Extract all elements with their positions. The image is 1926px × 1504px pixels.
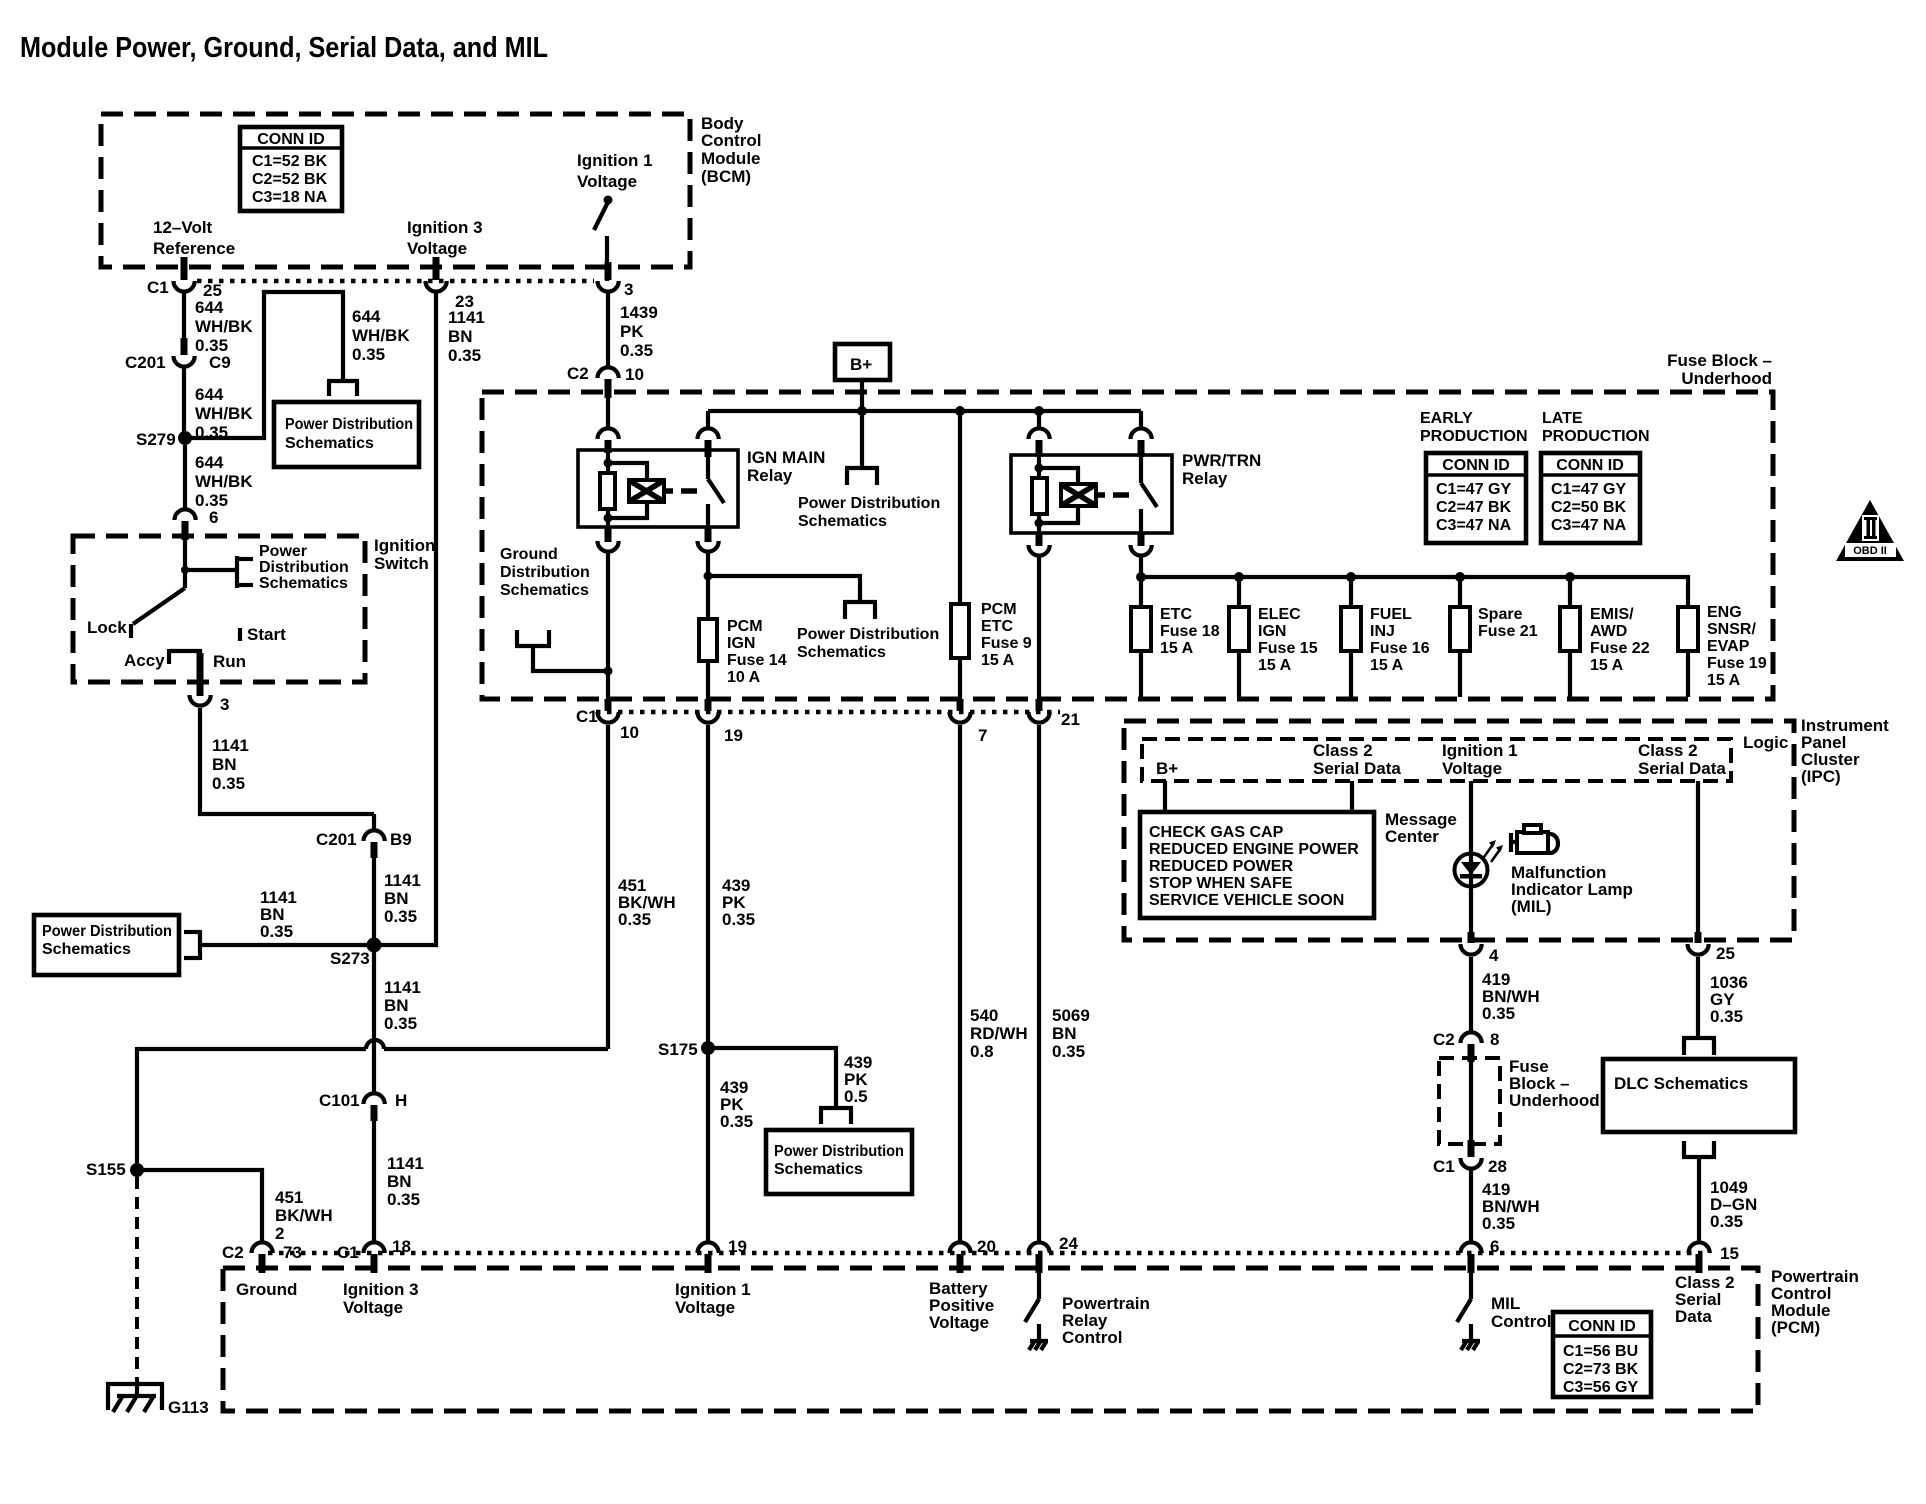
connector pin 7 (fuse block exit) [950,699,988,745]
box Power Distribution Schematics (center) [766,1130,912,1194]
svg-text:C9: C9 [209,353,231,372]
wire IGN MAIN switch to fuse 14 [704,553,713,619]
svg-text:C201: C201 [125,353,166,372]
wire 439 PK S175 to PCM pin 19 [708,1048,753,1241]
svg-text:Relay: Relay [1182,469,1228,488]
off-page fork to Power Distribution (ignition switch) [237,543,349,592]
svg-text:0.35: 0.35 [448,346,481,365]
svg-text:Voltage: Voltage [675,1298,735,1317]
svg-text:Power Distribution: Power Distribution [798,495,940,512]
svg-text:BN: BN [387,1172,412,1191]
junction box fuse block underhood (inline) [1439,1057,1600,1144]
wire 1141 BN S273 down [374,945,421,1092]
svg-text:Power Distribution: Power Distribution [774,1143,904,1160]
svg-text:Underhood: Underhood [1509,1091,1600,1110]
svg-text:INJ: INJ [1370,623,1395,640]
svg-text:S175: S175 [658,1040,698,1059]
svg-text:AWD: AWD [1590,623,1627,640]
svg-text:C2=52 BK: C2=52 BK [252,171,328,188]
connector C2 pin 8 [1433,1030,1499,1062]
wire 1141 BN from ignition switch [200,708,374,814]
svg-text:0.35: 0.35 [1710,1212,1743,1231]
svg-text:DLC Schematics: DLC Schematics [1614,1074,1748,1093]
connector pin 3 (BCM) [598,262,634,299]
splice S155 [86,1160,144,1179]
conn id table BCM [240,127,342,211]
svg-text:PCM: PCM [981,601,1017,618]
connector pin 19 (fuse block exit) [698,699,743,745]
svg-text:Schematics: Schematics [774,1161,863,1178]
lamp rays [1484,840,1503,862]
svg-text:IGN: IGN [1258,623,1286,640]
fuse PCM ETC Fuse 9 [951,411,1032,699]
label 12-Volt Reference [153,218,235,258]
svg-text:25: 25 [1716,944,1735,963]
wire 1141 BN from BCM pin 23 [374,293,485,945]
svg-text:Schematics: Schematics [798,513,887,530]
svg-text:C2=47 BK: C2=47 BK [1436,499,1512,516]
svg-text:ETC: ETC [1160,606,1192,623]
svg-text:0.35: 0.35 [1052,1042,1085,1061]
svg-text:15 A: 15 A [1258,657,1292,674]
svg-text:C1=47 GY: C1=47 GY [1551,481,1626,498]
splice S175 [658,1040,715,1059]
svg-text:CHECK GAS CAP: CHECK GAS CAP [1149,824,1284,841]
connector C1 pin 25 (BCM) [147,257,222,300]
svg-text:PRODUCTION: PRODUCTION [1420,428,1528,445]
svg-text:B9: B9 [390,830,412,849]
wire dashed S155 to ground [135,1177,139,1392]
svg-text:Fuse 22: Fuse 22 [1590,640,1650,657]
svg-text:Ignition: Ignition [374,536,435,555]
off-page fork from DLC [1682,1141,1716,1241]
svg-text:Power Distribution: Power Distribution [42,923,172,940]
module box Powertrain Control Module [223,1267,1859,1411]
svg-text:(PCM): (PCM) [1771,1318,1820,1337]
relay IGN MAIN [578,398,825,527]
svg-text:Fuse 15: Fuse 15 [1258,640,1318,657]
relay IGN MAIN coil [600,453,673,527]
message center box [1140,812,1374,918]
icon check engine [1511,825,1558,853]
svg-text:G113: G113 [168,1398,209,1417]
svg-text:CONN ID: CONN ID [1556,457,1624,474]
svg-text:Underhood: Underhood [1681,369,1772,388]
svg-text:Control: Control [701,131,761,150]
splice S279 [136,430,192,449]
svg-text:CONN ID: CONN ID [1568,1318,1636,1335]
label Malfunction Indicator Lamp [1511,863,1633,916]
svg-text:C2: C2 [1433,1030,1455,1049]
svg-text:10 A: 10 A [727,669,761,686]
wire 540 RD/WH from pin 7 to PCM pin 20 [960,725,1028,1241]
svg-text:B+: B+ [850,355,872,374]
connector pin 6 (PCM) [1461,1237,1500,1273]
relay IGN MAIN bottom connectors [598,527,719,552]
wire B+ to message center [1163,781,1167,812]
svg-text:PRODUCTION: PRODUCTION [1542,428,1650,445]
connector pin 25 (IPC exit) [1688,932,1735,963]
svg-text:C1=47 GY: C1=47 GY [1436,481,1511,498]
wire 451 BK/WH from C1 10 [608,725,676,1049]
svg-text:Fuse 9: Fuse 9 [981,635,1032,652]
svg-text:MIL: MIL [1491,1294,1520,1313]
svg-text:Voltage: Voltage [1442,759,1502,778]
fuse Spare Fuse 21 [1450,577,1538,697]
svg-text:Fuse 19: Fuse 19 [1707,655,1767,672]
splice S273 [330,938,382,969]
svg-text:3: 3 [220,695,229,714]
lamp MIL indicator [1455,854,1488,887]
connector C1 pin 28 [1433,1140,1507,1176]
svg-text:1141: 1141 [387,1154,424,1173]
svg-text:6: 6 [1490,1237,1499,1256]
svg-text:0.8: 0.8 [970,1042,994,1061]
svg-text:18: 18 [392,1237,411,1256]
wire IGN MAIN coil to C1 10 [606,553,610,699]
svg-text:4: 4 [1489,946,1499,965]
svg-text:Reference: Reference [153,239,235,258]
svg-text:15 A: 15 A [1370,657,1404,674]
relay PWR/TRN bottom connectors [1029,533,1152,556]
svg-text:Voltage: Voltage [343,1298,403,1317]
svg-text:ENG: ENG [1707,604,1742,621]
svg-text:S273: S273 [330,949,370,968]
off-page fork ground distribution [515,630,613,676]
connector pin 3 (ignition switch output) [190,695,230,714]
svg-text:Lock: Lock [87,618,127,637]
wire 439 PK from pin 19 to S175 [708,725,755,1048]
svg-text:644: 644 [352,307,381,326]
svg-text:PCM: PCM [727,618,763,635]
svg-text:REDUCED ENGINE POWER: REDUCED ENGINE POWER [1149,841,1359,858]
connector pin 23 (BCM) [426,257,474,311]
svg-text:Spare: Spare [1478,606,1523,623]
svg-text:IGN: IGN [727,635,755,652]
svg-text:Ignition 1: Ignition 1 [675,1280,751,1299]
svg-text:540: 540 [970,1006,998,1025]
module box Fuse Block Underhood [482,351,1773,699]
svg-text:15 A: 15 A [1590,657,1624,674]
wire Ignition 1 Voltage through MIL lamp [1469,781,1473,932]
svg-text:EVAP: EVAP [1707,638,1750,655]
label Ignition 1 Voltage (BCM) [577,151,653,191]
svg-text:Serial Data: Serial Data [1313,759,1401,778]
svg-text:Fuse 18: Fuse 18 [1160,623,1220,640]
svg-text:451: 451 [275,1188,303,1207]
conn id table early production [1426,453,1526,543]
svg-text:0.35: 0.35 [620,341,653,360]
wire 5069 BN from pin 21 to PCM pin 24 [1039,725,1090,1241]
svg-text:0.35: 0.35 [722,910,755,929]
svg-text:BN: BN [384,889,409,908]
svg-text:Relay: Relay [747,466,793,485]
wire Class 2 to message center [1350,781,1354,812]
driver MIL control [1457,1273,1551,1350]
wire Class 2 right stem [1696,781,1700,932]
svg-text:0.5: 0.5 [844,1087,868,1106]
svg-text:Power: Power [259,543,307,560]
svg-text:0.35: 0.35 [720,1112,753,1131]
svg-text:2: 2 [275,1224,284,1243]
svg-text:7: 7 [978,726,987,745]
svg-text:C3=47 NA: C3=47 NA [1551,517,1627,534]
fuse rail [1136,572,1688,607]
svg-text:IGN MAIN: IGN MAIN [747,448,825,467]
svg-text:Data: Data [1675,1307,1712,1326]
svg-text:0.35: 0.35 [387,1190,420,1209]
label Class 2 Serial Data (left) [1313,741,1401,778]
svg-text:EMIS/: EMIS/ [1590,606,1634,623]
svg-text:BN: BN [212,755,237,774]
connector pin 20 (PCM) [929,1237,996,1332]
svg-text:Control: Control [1062,1328,1122,1347]
relay PWR/TRN [1011,411,1261,533]
wire 451 BK/WH horizontal with hop over 1141 BN [137,1040,608,1163]
svg-text:0.35: 0.35 [260,922,293,941]
wire 439 PK branch to Power Distribution [708,1048,872,1107]
label LATE PRODUCTION [1542,410,1650,445]
label Ground Distribution Schematics [500,546,590,599]
svg-text:PK: PK [620,322,644,341]
wire 644 WH/BK S279 to ignition switch [185,445,253,510]
svg-text:C3=56 GY: C3=56 GY [1563,1379,1638,1396]
svg-text:644: 644 [195,298,224,317]
svg-text:0.35: 0.35 [384,1014,417,1033]
off-page fork to Power Distribution (switched feed) [708,576,939,661]
svg-text:0.35: 0.35 [1482,1214,1515,1233]
svg-text:(MIL): (MIL) [1511,897,1552,916]
svg-text:WH/BK: WH/BK [195,404,253,423]
svg-text:Voltage: Voltage [577,172,637,191]
svg-text:Voltage: Voltage [407,239,467,258]
svg-text:B+: B+ [1156,759,1178,778]
svg-text:1439: 1439 [620,303,658,322]
fuse ENG SNSR/EVAP Fuse 19 [1678,604,1767,697]
svg-text:Ignition 1: Ignition 1 [1442,741,1518,760]
svg-text:(IPC): (IPC) [1801,767,1841,786]
module box Instrument Panel Cluster [1124,716,1889,940]
connector pin 21 (fuse block exit) [1029,699,1080,729]
wire PWR/TRN coil to pin 21 [1037,557,1041,699]
svg-text:Schematics: Schematics [500,582,589,599]
svg-text:Control: Control [1491,1312,1551,1331]
svg-text:Schematics: Schematics [797,644,886,661]
svg-text:1141: 1141 [384,978,421,997]
svg-text:Ground: Ground [500,546,558,563]
wire 1049 D-GN to PCM pin 15 [1710,1178,1757,1231]
svg-text:CONN ID: CONN ID [1442,457,1510,474]
svg-text:Run: Run [213,652,246,671]
svg-text:C1=56 BU: C1=56 BU [1563,1343,1638,1360]
svg-text:STOP WHEN SAFE: STOP WHEN SAFE [1149,875,1293,892]
bus rail from B+ [708,406,1141,416]
conn id table late production [1541,453,1640,543]
svg-text:Fuse 14: Fuse 14 [727,652,787,669]
svg-text:12–Volt: 12–Volt [153,218,213,237]
svg-text:1141: 1141 [212,736,249,755]
svg-text:Start: Start [247,625,286,644]
svg-text:Power Distribution: Power Distribution [285,416,413,433]
svg-text:1141: 1141 [448,308,485,327]
svg-text:OBD II: OBD II [1853,545,1887,557]
connector pin 4 (IPC exit) [1461,932,1500,965]
svg-text:19: 19 [728,1237,747,1256]
svg-text:0.35: 0.35 [384,907,417,926]
svg-text:C3=47 NA: C3=47 NA [1436,517,1512,534]
wire 644 WH/BK C9 to S279 [184,368,253,442]
svg-text:0.35: 0.35 [1710,1007,1743,1026]
connector row line PCM [268,1251,1705,1256]
connector pin 15 (PCM) [1675,1242,1739,1326]
box DLC Schematics [1603,1059,1795,1132]
svg-text:EARLY: EARLY [1420,410,1473,427]
ground G113 [108,1384,209,1417]
wire branch S279 to Power Distribution fork [185,292,410,438]
svg-text:WH/BK: WH/BK [352,326,410,345]
svg-text:Class 2: Class 2 [1313,741,1373,760]
svg-text:C1=52 BK: C1=52 BK [252,153,328,170]
svg-text:C1: C1 [1433,1157,1455,1176]
wire S155 to C2 73 [137,1170,333,1243]
fuse EMIS/AWD Fuse 22 [1560,577,1650,697]
switch arm Lock position [87,588,185,638]
svg-text:C2=50 BK: C2=50 BK [1551,499,1627,516]
svg-text:28: 28 [1488,1157,1507,1176]
svg-text:Ignition 1: Ignition 1 [577,151,653,170]
conn id table PCM [1553,1312,1651,1397]
svg-text:Center: Center [1385,827,1439,846]
svg-text:C101: C101 [319,1091,360,1110]
svg-text:(BCM): (BCM) [701,167,751,186]
svg-text:C1: C1 [576,707,598,726]
battery feed B+ [835,344,890,412]
label Message Center [1385,810,1457,846]
connector row line below BCM [197,279,594,284]
svg-text:Schematics: Schematics [259,575,348,592]
svg-text:6: 6 [209,508,218,527]
svg-text:BN: BN [448,327,473,346]
off-page fork from Power Distribution to S273 [184,888,374,960]
connector C2 pin 10 (fuse block entry) [567,364,644,398]
svg-text:20: 20 [977,1237,996,1256]
off-page fork to Power Distribution (S175 branch) [819,1108,853,1124]
svg-text:Distribution: Distribution [259,559,349,576]
wire 1439 PK from BCM pin 3 [608,293,658,366]
svg-text:C1: C1 [147,278,169,297]
svg-text:ELEC: ELEC [1258,606,1301,623]
svg-text:Power Distribution: Power Distribution [797,626,939,643]
svg-text:Module Power, Ground, Serial D: Module Power, Ground, Serial Data, and M… [20,32,548,64]
connector pin 24 (PCM) [1029,1234,1079,1273]
svg-text:1141: 1141 [384,871,421,890]
contact Start [240,625,286,644]
svg-text:S155: S155 [86,1160,126,1179]
svg-text:Fuse Block –: Fuse Block – [1667,351,1772,370]
contact Accy [124,649,169,670]
svg-text:C1: C1 [337,1243,359,1262]
connector pin 6 (ignition switch) [175,508,219,540]
svg-text:0.35: 0.35 [618,910,651,929]
wire 644 WH/BK from C1 25 [184,293,253,355]
wire into ignition switch pole [181,540,237,588]
label EARLY PRODUCTION [1420,410,1528,445]
svg-text:15 A: 15 A [1707,672,1741,689]
label Ignition 1 Voltage (IPC) [1442,741,1518,778]
svg-text:0.35: 0.35 [1482,1004,1515,1023]
connector C201 C9 [125,338,231,372]
wire 419 BN/WH to PCM pin 6 [1471,1170,1540,1241]
svg-text:Voltage: Voltage [929,1313,989,1332]
fuse ETC Fuse 18 [1131,577,1220,697]
svg-text:Module: Module [701,149,761,168]
module box BCM [101,114,761,267]
svg-text:Distribution: Distribution [500,564,590,581]
svg-text:0.35: 0.35 [352,345,385,364]
off-page fork to Power Distribution (S279 branch) [327,381,359,396]
svg-text:Switch: Switch [374,554,429,573]
svg-text:Schematics: Schematics [42,941,131,958]
svg-text:Fuse 16: Fuse 16 [1370,640,1430,657]
svg-text:10: 10 [620,723,639,742]
connector C1 pin 18 (PCM) [337,1237,419,1317]
svg-text:Fuse 21: Fuse 21 [1478,623,1538,640]
svg-text:PWR/TRN: PWR/TRN [1182,451,1261,470]
svg-text:8: 8 [1490,1030,1499,1049]
svg-text:Ground: Ground [236,1280,297,1299]
svg-text:15 A: 15 A [1160,640,1194,657]
svg-text:WH/BK: WH/BK [195,472,253,491]
svg-text:RD/WH: RD/WH [970,1024,1028,1043]
svg-text:Ignition 3: Ignition 3 [407,218,483,237]
connector pin 19 (PCM) [675,1237,751,1317]
svg-text:10: 10 [625,365,644,384]
svg-text:644: 644 [195,385,224,404]
logic box [1142,733,1788,781]
svg-text:15: 15 [1720,1244,1739,1263]
svg-text:73: 73 [283,1243,302,1262]
svg-text:Logic: Logic [1743,733,1788,752]
svg-text:C201: C201 [316,830,357,849]
svg-text:C3=18 NA: C3=18 NA [252,189,328,206]
wire 1141 BN B9 to S273 [374,858,421,945]
relay PWR/TRN switch [1113,457,1157,533]
svg-text:Ignition 3: Ignition 3 [343,1280,419,1299]
connector C101 H [319,1091,407,1121]
fuse ELEC IGN Fuse 15 [1229,577,1318,697]
wire 1141 BN to PCM pin 18 [374,1121,424,1241]
svg-text:BN: BN [384,996,409,1015]
svg-text:SERVICE VEHICLE SOON: SERVICE VEHICLE SOON [1149,892,1344,909]
svg-text:3: 3 [624,280,633,299]
svg-text:LATE: LATE [1542,410,1583,427]
connector C2 pin 73 (PCM) [222,1242,302,1299]
label Ignition 3 Voltage (BCM) [407,218,483,258]
wire PWR/TRN switch to fuse rail [1139,557,1143,577]
off-page fork B+ to Power Distribution [798,412,940,530]
switch box Ignition Switch [73,536,435,682]
svg-text:5069: 5069 [1052,1006,1090,1025]
svg-text:ETC: ETC [981,618,1013,635]
svg-text:BK/WH: BK/WH [275,1206,333,1225]
svg-text:Accy: Accy [124,651,165,670]
svg-text:644: 644 [195,453,224,472]
relay PWR/TRN coil [1032,457,1105,533]
wire 1036 GY from pin 25 [1698,957,1748,1037]
switch Ignition 1 inside BCM [594,196,613,282]
svg-text:19: 19 [724,726,743,745]
driver powertrain relay control [1025,1273,1150,1350]
